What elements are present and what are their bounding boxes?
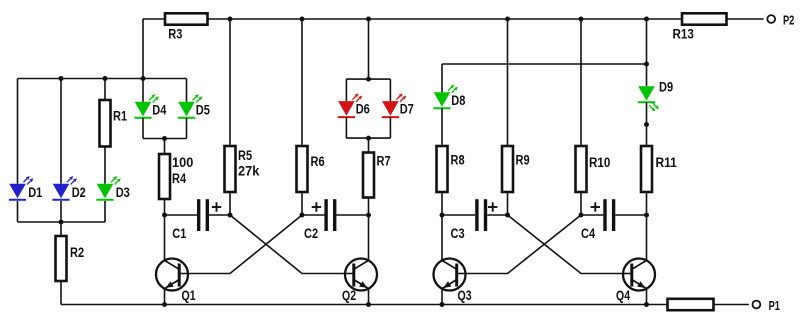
wire top rail right segment xyxy=(727,18,764,20)
svg-text:D4: D4 xyxy=(152,102,167,117)
capacitor C2 xyxy=(302,199,369,231)
wire xyxy=(164,215,166,260)
LED D4 xyxy=(134,94,158,118)
junction xyxy=(366,17,371,22)
wire xyxy=(60,281,62,305)
svg-text:R5: R5 xyxy=(238,148,253,163)
junction xyxy=(644,17,649,22)
capacitor C4 xyxy=(581,199,647,231)
junction xyxy=(162,302,167,307)
wire xyxy=(389,117,391,138)
capacitor C1 xyxy=(165,199,231,231)
wire xyxy=(164,289,166,305)
svg-text:Q2: Q2 xyxy=(342,288,356,303)
junction xyxy=(644,213,649,218)
wire xyxy=(646,192,648,215)
wire base cross to Q4 xyxy=(508,215,623,274)
junction xyxy=(103,76,108,81)
wire base cross to Q2 xyxy=(230,215,345,274)
resistor R9 xyxy=(502,146,513,192)
junction xyxy=(300,17,305,22)
svg-text:P1: P1 xyxy=(769,298,780,313)
wire xyxy=(646,19,648,86)
LED D8 xyxy=(433,85,457,109)
wire xyxy=(301,192,303,215)
wire xyxy=(186,118,188,139)
svg-text:C2: C2 xyxy=(304,226,318,241)
wire D8-D9 rail xyxy=(442,63,647,65)
resistor R5 xyxy=(225,146,236,192)
wire anode rail xyxy=(18,78,187,80)
wire xyxy=(368,19,370,79)
wire xyxy=(580,19,582,146)
wire xyxy=(646,289,648,305)
LED D6 xyxy=(338,93,362,117)
svg-text:D5: D5 xyxy=(196,102,211,117)
wire xyxy=(60,201,62,222)
svg-text:R9: R9 xyxy=(516,152,530,167)
junction xyxy=(59,220,64,225)
wire xyxy=(229,19,231,146)
svg-text:D6: D6 xyxy=(356,102,370,117)
wire D4-D5 bottom xyxy=(143,138,187,140)
svg-text:R10: R10 xyxy=(589,155,610,170)
svg-text:R2: R2 xyxy=(70,245,84,260)
junction xyxy=(228,213,233,218)
junction xyxy=(162,213,167,218)
wire cathode rail xyxy=(18,221,106,223)
wire top rail main segment xyxy=(208,18,683,20)
wire xyxy=(164,139,166,155)
resistor R1 xyxy=(100,100,111,147)
svg-text:R4: R4 xyxy=(172,171,187,186)
wire xyxy=(142,118,144,139)
wire xyxy=(580,192,582,215)
svg-text:R6: R6 xyxy=(311,154,325,169)
resistor R4 xyxy=(159,154,170,199)
junction xyxy=(366,77,371,82)
svg-text:Q3: Q3 xyxy=(458,288,472,303)
LED D7 xyxy=(382,93,406,117)
svg-text:100: 100 xyxy=(172,155,193,170)
resistor R12 xyxy=(668,299,714,310)
wire D6-D7 top xyxy=(346,78,390,80)
terminal P2 xyxy=(767,15,775,23)
junction xyxy=(644,302,649,307)
svg-text:D2: D2 xyxy=(72,185,86,200)
svg-text:R1: R1 xyxy=(113,109,128,124)
wire D6-D7 bottom xyxy=(346,137,390,139)
wire xyxy=(229,192,231,215)
junction xyxy=(505,213,510,218)
wire xyxy=(17,79,19,184)
svg-text:C3: C3 xyxy=(451,226,465,241)
junction xyxy=(579,213,584,218)
svg-text:27k: 27k xyxy=(238,163,260,178)
wire bottom rail xyxy=(61,304,668,306)
wire xyxy=(646,102,648,146)
svg-text:D1: D1 xyxy=(28,185,43,200)
junction xyxy=(228,17,233,22)
wire xyxy=(368,289,370,305)
svg-text:D8: D8 xyxy=(451,93,466,108)
svg-text:R13: R13 xyxy=(673,27,694,42)
wire xyxy=(17,201,19,222)
resistor R10 xyxy=(576,146,587,192)
wire xyxy=(441,64,443,92)
wire xyxy=(301,19,303,146)
junction xyxy=(505,17,510,22)
wire xyxy=(507,19,509,146)
wire xyxy=(441,108,443,146)
wire xyxy=(345,117,347,138)
junction xyxy=(366,302,371,307)
terminal P1 xyxy=(753,301,761,309)
wire xyxy=(142,79,144,102)
svg-text:D3: D3 xyxy=(116,185,130,200)
svg-text:Q4: Q4 xyxy=(616,288,631,303)
wire xyxy=(441,215,443,260)
wire xyxy=(186,79,188,102)
wire bottom rail right xyxy=(714,304,749,306)
wire xyxy=(60,79,62,184)
wire xyxy=(345,79,347,101)
LED D1 xyxy=(9,176,33,200)
junction xyxy=(141,76,146,81)
wire xyxy=(441,289,443,305)
wire xyxy=(646,215,648,260)
svg-text:C1: C1 xyxy=(172,226,187,241)
svg-text:R7: R7 xyxy=(377,153,391,168)
wire xyxy=(164,199,166,215)
resistor R2 xyxy=(56,236,67,281)
capacitor C3 xyxy=(442,199,508,231)
wire base cross to Q1 xyxy=(188,215,302,274)
wire top rail left segment xyxy=(143,18,165,20)
resistor R7 xyxy=(363,153,374,198)
svg-text:R3: R3 xyxy=(168,27,182,42)
wire base cross to Q3 xyxy=(466,215,581,274)
resistor R6 xyxy=(297,146,308,192)
transistor Q1 xyxy=(156,259,188,291)
transistor Q4 xyxy=(623,259,655,291)
svg-text:D9: D9 xyxy=(659,80,673,95)
junction xyxy=(59,76,64,81)
wire xyxy=(142,19,144,79)
wire xyxy=(104,147,106,184)
wire xyxy=(441,192,443,215)
junction xyxy=(440,213,445,218)
svg-text:R11: R11 xyxy=(656,155,678,170)
resistor R11 xyxy=(641,146,652,192)
svg-text:C4: C4 xyxy=(581,226,596,241)
transistor Q2 xyxy=(345,259,377,291)
resistor R8 xyxy=(437,146,448,192)
wire xyxy=(368,198,370,216)
resistor R3 xyxy=(165,13,208,24)
wire xyxy=(104,79,106,101)
junction xyxy=(366,136,371,141)
wire xyxy=(389,79,391,101)
junction xyxy=(162,136,167,141)
svg-text:Q1: Q1 xyxy=(182,288,197,303)
LED D9 xyxy=(638,86,659,111)
LED D5 xyxy=(178,94,202,118)
LED D3 xyxy=(96,176,120,200)
svg-text:P2: P2 xyxy=(783,12,794,27)
resistor R13 xyxy=(682,13,727,24)
junction xyxy=(644,122,649,127)
wire xyxy=(368,138,370,152)
LED D2 xyxy=(52,176,76,200)
junction xyxy=(440,302,445,307)
wire xyxy=(368,215,370,260)
wire xyxy=(104,201,106,222)
transistor Q3 xyxy=(434,259,466,291)
wire xyxy=(60,222,62,236)
junction xyxy=(366,213,371,218)
junction xyxy=(579,17,584,22)
wire xyxy=(507,192,509,215)
svg-text:R8: R8 xyxy=(451,152,466,167)
junction xyxy=(300,213,305,218)
svg-text:D7: D7 xyxy=(400,102,414,117)
junction xyxy=(644,62,649,67)
